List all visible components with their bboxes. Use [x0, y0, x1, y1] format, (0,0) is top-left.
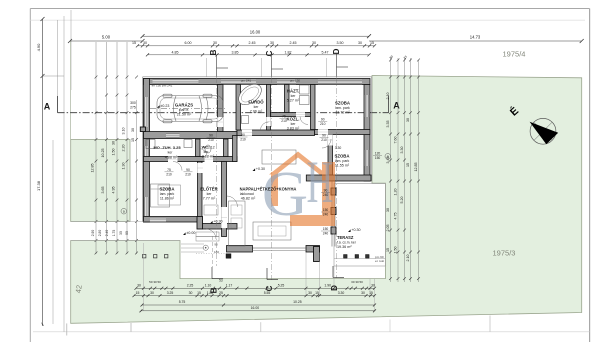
svg-text:2.12: 2.12	[208, 145, 215, 149]
window bottom szoba-left	[150, 217, 166, 222]
svg-text:2.45: 2.45	[249, 41, 256, 45]
svg-text:240: 240	[323, 232, 329, 236]
window szoba2 right	[365, 150, 370, 166]
svg-text:±0.23: ±0.23	[160, 104, 169, 108]
svg-text:5.00: 5.00	[102, 35, 111, 40]
corner pier L nappali SE	[314, 247, 320, 262]
svg-text:12.85: 12.85	[414, 163, 418, 172]
svg-text:19.36 m²: 19.36 m²	[337, 245, 352, 249]
svg-text:210: 210	[320, 122, 326, 126]
washer mozuh	[184, 140, 192, 148]
bottom dimension row 1	[136, 287, 375, 289]
svg-text:3.35: 3.35	[386, 121, 390, 128]
svg-text:50 30 50: 50 30 50	[149, 280, 161, 284]
top dimension row 5.00 and 14.73	[70, 40, 143, 42]
svg-text:1.17: 1.17	[226, 283, 233, 287]
level +0.30 nappali	[253, 168, 256, 171]
label frame szoba-left	[158, 185, 181, 205]
svg-text:+0.30: +0.30	[213, 220, 222, 224]
car in garage	[157, 94, 223, 123]
svg-text:90: 90	[321, 118, 325, 122]
svg-text:30: 30	[361, 291, 365, 295]
wall garage right	[218, 85, 224, 132]
svg-text:30: 30	[137, 283, 141, 287]
dash axis garage	[150, 108, 225, 110]
svg-text:ELŐTÉR: ELŐTÉR	[200, 187, 218, 192]
wall exterior right	[364, 85, 370, 182]
drain square	[226, 254, 231, 259]
svg-text:el. toló: el. toló	[375, 259, 384, 263]
svg-text:13.72 m²: 13.72 m²	[335, 111, 350, 115]
svg-text:15: 15	[197, 291, 201, 295]
svg-text:14.73: 14.73	[470, 35, 481, 40]
sofa	[262, 150, 296, 164]
wall garage bottom	[144, 132, 238, 139]
wall hazt bottom	[271, 113, 315, 117]
wall nappali bottom east pier	[306, 246, 320, 253]
svg-text:1.10: 1.10	[205, 283, 212, 287]
top dimension row 3	[148, 54, 370, 56]
svg-text:240: 240	[323, 193, 329, 197]
svg-text:210: 210	[240, 138, 246, 142]
svg-text:lakkoncol: lakkoncol	[240, 192, 254, 196]
svg-text:7.96 m²: 7.96 m²	[250, 110, 263, 114]
svg-text:5.55: 5.55	[264, 291, 271, 295]
svg-text:C: C	[265, 50, 274, 56]
svg-text:15: 15	[315, 291, 319, 295]
svg-text:210: 210	[281, 119, 287, 123]
svg-text:4.95: 4.95	[112, 187, 116, 194]
wall szoba1 bottom	[315, 130, 371, 135]
door openings (white gaps)	[168, 156, 178, 162]
house eave outline	[143, 76, 372, 78]
pier garage SW corner	[140, 127, 145, 132]
svg-text:210: 210	[321, 138, 327, 142]
svg-text:12.85: 12.85	[91, 164, 95, 173]
svg-text:lam. park: lam. park	[335, 159, 350, 163]
svg-text:3.30: 3.30	[338, 291, 345, 295]
svg-text:G: G	[262, 158, 308, 229]
svg-text:15: 15	[136, 291, 140, 295]
wall kozl bottom	[237, 130, 315, 136]
svg-text:2.25: 2.25	[187, 283, 194, 287]
page border frame	[30, 8, 589, 10]
svg-text:1.82: 1.82	[285, 50, 292, 54]
svg-text:2.80: 2.80	[98, 230, 102, 237]
svg-text:B: B	[209, 49, 218, 55]
svg-text:30: 30	[150, 291, 154, 295]
svg-text:4.88 m²: 4.88 m²	[165, 156, 178, 160]
window mozuh left	[144, 146, 149, 157]
svg-text:15: 15	[369, 291, 373, 295]
bottom dimension row 3	[142, 304, 375, 306]
svg-text:1.90: 1.90	[324, 283, 331, 287]
svg-text:4.90: 4.90	[36, 43, 41, 52]
plot boundary continuation lines below green	[130, 323, 132, 332]
svg-text:2.10: 2.10	[406, 255, 410, 262]
svg-text:15: 15	[132, 41, 136, 45]
svg-text:±0.00: ±0.00	[186, 231, 195, 235]
svg-text:NAPPALI+ÉTKEZŐ+KONYHA: NAPPALI+ÉTKEZŐ+KONYHA	[240, 187, 297, 192]
wall entrance recess	[203, 224, 238, 230]
bottom marker C	[266, 268, 268, 280]
svg-text:10.25: 10.25	[293, 300, 302, 304]
svg-text:3.30: 3.30	[335, 146, 342, 150]
svg-text:3.50: 3.50	[337, 41, 344, 45]
door garage-mozuh	[166, 133, 180, 138]
svg-text:11.55 m²: 11.55 m²	[335, 164, 350, 168]
svg-text:16.00: 16.00	[251, 306, 260, 310]
svg-text:a: a	[123, 210, 125, 214]
svg-text:D: D	[332, 48, 341, 54]
window garage top	[153, 79, 199, 84]
svg-text:15: 15	[406, 163, 410, 167]
compass north arrow	[530, 118, 559, 144]
svg-text:A: A	[44, 102, 51, 112]
svg-text:75: 75	[167, 168, 171, 172]
svg-text:275: 275	[130, 106, 136, 110]
svg-text:a: a	[387, 155, 389, 159]
top dimension row 2	[138, 45, 375, 47]
svg-text:1.20: 1.20	[394, 189, 398, 196]
svg-text:HÁZT.: HÁZT.	[287, 89, 299, 94]
svg-text:7.60: 7.60	[394, 137, 398, 144]
svg-text:ker: ker	[291, 94, 297, 98]
svg-text:SZOBA: SZOBA	[335, 101, 350, 106]
section line D vertical	[336, 77, 338, 278]
svg-text:90: 90	[324, 189, 328, 193]
svg-text:30: 30	[371, 283, 375, 287]
svg-text:30: 30	[308, 291, 312, 295]
svg-text:30: 30	[358, 41, 362, 45]
svg-text:3.25: 3.25	[167, 291, 174, 295]
svg-text:30: 30	[386, 208, 390, 212]
svg-text:30: 30	[112, 141, 116, 145]
svg-text:15: 15	[386, 248, 390, 252]
svg-text:ker: ker	[207, 192, 213, 196]
hazt appliances	[300, 85, 310, 94]
wall szoba2 left	[328, 135, 333, 176]
svg-text:2.20: 2.20	[122, 145, 126, 152]
svg-text:30: 30	[270, 41, 274, 45]
bottom marker B	[211, 267, 213, 279]
svg-text:1.50: 1.50	[112, 149, 116, 156]
window hazt top	[277, 80, 296, 85]
svg-text:TERASZ: TERASZ	[337, 235, 354, 240]
east wall nappali window band	[331, 181, 333, 247]
svg-text:30: 30	[406, 118, 410, 122]
svg-text:120: 120	[375, 152, 381, 156]
svg-text:5.47: 5.47	[322, 50, 329, 54]
level +-0.23 garage	[157, 105, 160, 108]
svg-text:pm 241: pm 241	[241, 79, 252, 83]
svg-text:2.12 m²: 2.12 m²	[202, 154, 215, 158]
section line B vertical	[216, 77, 218, 266]
svg-text:MO.-ZUH. 3.25: MO.-ZUH. 3.25	[153, 145, 181, 150]
svg-text:30: 30	[131, 128, 135, 132]
level +0.30 terasz	[348, 229, 351, 232]
svg-text:A: A	[393, 101, 400, 111]
svg-text:fm 150 pm 241: fm 150 pm 241	[152, 84, 173, 88]
svg-text:ipari e.: ipari e.	[179, 108, 190, 112]
top dimension row 16.00	[143, 35, 370, 37]
wall mozuh-wc	[196, 139, 201, 157]
wall furdo left	[236, 85, 241, 131]
svg-text:4.75: 4.75	[394, 213, 398, 220]
svg-text:5.20: 5.20	[400, 197, 404, 204]
svg-text:30: 30	[312, 41, 316, 45]
level +0.30 eloter	[210, 221, 213, 224]
svg-text:3.83 m²: 3.83 m²	[287, 127, 300, 131]
svg-text:+0.30: +0.30	[256, 167, 265, 171]
wall bottom szoba-left	[144, 217, 203, 223]
circled marker a left	[121, 208, 127, 214]
svg-text:5.27 m²: 5.27 m²	[287, 99, 300, 103]
svg-text:150: 150	[323, 227, 329, 231]
svg-text:16.00: 16.00	[250, 30, 261, 35]
dining table	[253, 222, 291, 240]
svg-text:240: 240	[323, 213, 329, 217]
svg-text:90: 90	[214, 243, 218, 247]
svg-text:H: H	[306, 149, 333, 215]
svg-text:3.85: 3.85	[232, 50, 239, 54]
survey point circle	[203, 245, 208, 250]
svg-text:6.00: 6.00	[185, 41, 192, 45]
svg-text:15: 15	[370, 41, 374, 45]
svg-text:30: 30	[119, 231, 123, 235]
svg-text:21.50 m²: 21.50 m²	[177, 113, 192, 117]
sliding glass door nappali south	[253, 247, 307, 249]
svg-text:30 30 50: 30 30 50	[351, 280, 363, 284]
svg-text:210: 210	[166, 172, 172, 176]
svg-text:75: 75	[282, 115, 286, 119]
wall szoba2 bottom	[306, 175, 371, 181]
svg-text:ker: ker	[254, 105, 260, 109]
terasz outline	[334, 184, 385, 267]
svg-text:3.65: 3.65	[101, 187, 105, 194]
wall furdo right	[267, 85, 271, 131]
window szoba1 right	[365, 95, 370, 117]
wall kam-hazt	[285, 85, 290, 113]
svg-text:1.50: 1.50	[394, 247, 398, 254]
entrance steps	[196, 232, 219, 237]
lot 1975/3-4 green area main polygon	[71, 76, 582, 324]
svg-text:SZOBA: SZOBA	[334, 154, 349, 159]
walkway to entrance	[71, 221, 144, 223]
window szoba1 top	[318, 80, 362, 85]
svg-text:1975/3: 1975/3	[493, 249, 516, 258]
svg-text:17.38: 17.38	[36, 180, 41, 191]
right dimension columns	[390, 58, 392, 282]
svg-text:2.05: 2.05	[386, 225, 390, 232]
wall kamra	[233, 136, 238, 162]
bottom marker D	[332, 266, 334, 278]
svg-text:1.75: 1.75	[112, 230, 116, 237]
svg-text:5.75: 5.75	[179, 300, 186, 304]
wc toilet	[205, 145, 211, 153]
washbasin	[242, 116, 249, 124]
wall hazt-szoba1	[311, 85, 316, 130]
shrubs on walkway	[143, 255, 146, 258]
svg-text:lam. park: lam. park	[335, 106, 350, 110]
svg-text:30: 30	[143, 41, 147, 45]
wall eloter-nappali	[222, 162, 227, 237]
svg-text:150: 150	[375, 156, 381, 160]
svg-text:46.82 m²: 46.82 m²	[241, 197, 256, 201]
svg-text:KÖZL.: KÖZL.	[287, 117, 300, 122]
wall szoba-eloter	[198, 162, 203, 217]
svg-text:f.á. cs.m. ker: f.á. cs.m. ker	[337, 241, 357, 245]
left property/dimension vertical lines	[42, 19, 44, 324]
svg-text:90: 90	[322, 134, 326, 138]
watermark logo house	[269, 152, 335, 227]
svg-text:210: 210	[185, 172, 191, 176]
svg-text:300: 300	[130, 101, 136, 105]
svg-text:+0.30: +0.30	[351, 228, 360, 232]
svg-text:5.25: 5.25	[278, 283, 285, 287]
svg-text:GARÁZS: GARÁZS	[175, 103, 193, 108]
svg-text:1975/4: 1975/4	[503, 50, 526, 59]
circled marker a right	[385, 154, 391, 160]
terasz posts	[344, 255, 348, 259]
svg-text:90: 90	[209, 134, 213, 138]
svg-text:SZOBA: SZOBA	[159, 187, 174, 192]
svg-text:2.90: 2.90	[91, 230, 95, 237]
bottom dimension row 4	[141, 310, 375, 312]
svg-text:10.25: 10.25	[101, 149, 105, 158]
wall wc right	[224, 139, 229, 157]
svg-text:1.80: 1.80	[207, 291, 214, 295]
kitchen counter	[229, 201, 246, 246]
svg-text:150: 150	[323, 208, 329, 212]
bottom dimension row 2	[134, 295, 375, 297]
window szoba-left	[144, 197, 149, 216]
svg-text:30: 30	[213, 41, 217, 45]
bed szoba-left	[151, 184, 170, 207]
svg-text:30: 30	[189, 291, 193, 295]
section line C vertical	[271, 77, 273, 280]
svg-text:210: 210	[208, 138, 214, 142]
green strip left of house	[71, 140, 130, 222]
svg-text:180: 180	[214, 250, 219, 254]
wall exterior left	[144, 79, 150, 223]
left dimension columns	[95, 42, 97, 254]
svg-text:15: 15	[131, 138, 135, 142]
svg-text:lam. park: lam. park	[160, 192, 175, 196]
svg-text:ker: ker	[291, 122, 297, 126]
closet eloter	[204, 205, 218, 215]
svg-text:42: 42	[74, 284, 84, 293]
svg-text:3.30: 3.30	[400, 147, 404, 154]
window top middle	[221, 80, 256, 85]
svg-text:90: 90	[241, 133, 245, 137]
svg-text:pm 150: pm 150	[290, 79, 301, 83]
wall exterior top	[144, 79, 371, 85]
svg-text:FÜRDŐ: FÜRDŐ	[248, 100, 264, 105]
section line A-A	[57, 96, 59, 113]
svg-text:3.10: 3.10	[122, 128, 126, 135]
dimension connectors bottom	[143, 243, 145, 311]
svg-text:1.30: 1.30	[122, 163, 126, 170]
svg-text:90: 90	[186, 168, 190, 172]
svg-text:2.10: 2.10	[386, 93, 390, 100]
door arcs	[173, 117, 331, 240]
wall mozuh bottom	[144, 157, 238, 162]
garage door left	[144, 97, 149, 127]
svg-text:25: 25	[219, 291, 223, 295]
svg-text:2.40: 2.40	[105, 230, 109, 237]
svg-text:11.86 m²: 11.86 m²	[160, 197, 175, 201]
svg-text:4.85: 4.85	[172, 50, 179, 54]
level +-0.00 entrance	[183, 232, 186, 235]
svg-text:7.77 m²: 7.77 m²	[203, 197, 216, 201]
svg-text:2.45: 2.45	[290, 41, 297, 45]
wall nappali bottom west pier	[227, 246, 253, 253]
svg-text:53: 53	[219, 279, 223, 283]
svg-text:90: 90	[125, 231, 129, 235]
wall entrance jog vertical	[197, 217, 203, 230]
bathtub	[235, 80, 265, 109]
